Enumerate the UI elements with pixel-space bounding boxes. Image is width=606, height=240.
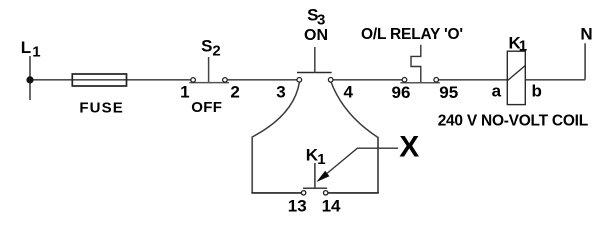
svg-text:S: S	[201, 37, 212, 56]
svg-text:96: 96	[392, 83, 411, 102]
svg-text:13: 13	[288, 197, 307, 216]
svg-text:1: 1	[519, 37, 527, 54]
svg-text:N: N	[580, 24, 592, 43]
svg-text:1: 1	[32, 43, 40, 60]
svg-text:1: 1	[180, 83, 189, 102]
svg-text:4: 4	[344, 82, 354, 101]
svg-text:OFF: OFF	[191, 99, 222, 116]
svg-text:FUSE: FUSE	[79, 99, 123, 116]
svg-text:240 V NO-VOLT COIL: 240 V NO-VOLT COIL	[438, 112, 588, 129]
svg-text:L: L	[21, 38, 31, 57]
svg-text:ON: ON	[304, 27, 328, 44]
svg-text:3: 3	[317, 11, 325, 28]
svg-text:b: b	[532, 81, 542, 100]
svg-text:a: a	[492, 81, 502, 100]
svg-text:2: 2	[230, 83, 239, 102]
svg-text:14: 14	[322, 197, 341, 216]
svg-text:X: X	[399, 131, 419, 164]
svg-text:2: 2	[212, 43, 220, 60]
svg-text:3: 3	[276, 83, 285, 102]
svg-text:95: 95	[439, 83, 458, 102]
svg-text:O/L RELAY 'O': O/L RELAY 'O'	[361, 26, 463, 43]
svg-text:1: 1	[317, 151, 325, 168]
